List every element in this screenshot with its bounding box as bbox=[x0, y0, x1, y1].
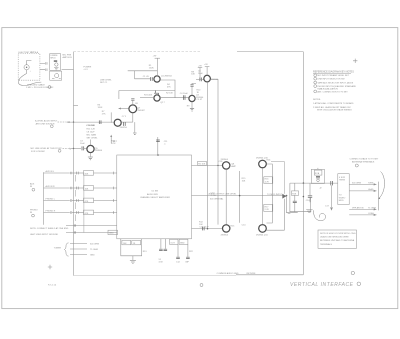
svg-text:AUX: AUX bbox=[30, 182, 35, 185]
wire left bus vertical bbox=[73, 52, 75, 276]
svg-text:+9V: +9V bbox=[198, 65, 202, 67]
label audio output bbox=[209, 193, 283, 201]
transistor Q5 bbox=[87, 145, 103, 152]
capacitor C12 pair bbox=[176, 244, 190, 263]
node PHONO L row bbox=[44, 198, 117, 209]
microphone MK1 dashed enclosure bbox=[18, 51, 40, 80]
wire bias branch bbox=[128, 70, 158, 72]
capacitor C7 bbox=[122, 116, 127, 126]
svg-text:2N3904 Q11: 2N3904 Q11 bbox=[256, 234, 268, 236]
wire Q5 collector up bbox=[89, 140, 91, 146]
svg-text:120K: 120K bbox=[98, 107, 103, 109]
svg-text:R5 10K: R5 10K bbox=[198, 164, 206, 166]
capacitor C13 bbox=[200, 227, 210, 231]
wire TV lead 1 bbox=[349, 182, 376, 185]
svg-text:TWIN: TWIN bbox=[368, 183, 374, 185]
IC U1 main mixer box bbox=[117, 155, 192, 239]
svg-text:2N3904: 2N3904 bbox=[95, 150, 103, 152]
wire Q6 output right bbox=[121, 121, 133, 123]
svg-text:R2 10K: R2 10K bbox=[166, 93, 174, 95]
node tuner A bbox=[70, 243, 99, 245]
label aux group bbox=[30, 182, 35, 191]
node PHONO R row bbox=[44, 210, 117, 221]
bus right vertical bbox=[302, 52, 304, 275]
capacitor C17 bbox=[325, 185, 333, 210]
svg-text:2N3904: 2N3904 bbox=[221, 234, 229, 236]
svg-text:LEAD: LEAD bbox=[368, 188, 374, 191]
wire Q10 to Q11 bbox=[262, 168, 264, 224]
transistor Q8 bbox=[221, 159, 237, 169]
svg-text:OUT: OUT bbox=[170, 242, 175, 244]
svg-text:LINE INPUT SELECTOR SW: LINE INPUT SELECTOR SW bbox=[317, 79, 344, 81]
svg-text:33P: 33P bbox=[185, 262, 189, 264]
component column right of bus bbox=[306, 183, 313, 212]
connector pins between mic and preamp bbox=[40, 62, 47, 71]
svg-text:TERMINALS: TERMINALS bbox=[320, 243, 333, 246]
svg-text:COMMON AUDIO GND: COMMON AUDIO GND bbox=[217, 272, 239, 275]
svg-text:BETWEEN UNIT AND TV ANTENNA: BETWEEN UNIT AND TV ANTENNA bbox=[320, 239, 355, 242]
wire IC to Q9 bbox=[192, 228, 223, 230]
label phono group bbox=[30, 210, 38, 218]
svg-text:LAST USED INPUT GROUND: LAST USED INPUT GROUND bbox=[30, 233, 59, 236]
svg-text:1 ATTACH ALL COMPONENTS TO BOA: 1 ATTACH ALL COMPONENTS TO BOARD bbox=[313, 102, 354, 105]
svg-text:10uF: 10uF bbox=[80, 143, 85, 145]
svg-text:NOTE IF HUM OCCURS WITH LONG: NOTE IF HUM OCCURS WITH LONG bbox=[320, 233, 356, 235]
node bus junctions bbox=[303, 182, 305, 184]
wire TV lead 2 bbox=[349, 188, 376, 192]
wire Q3 collector up bbox=[191, 86, 193, 95]
svg-text:WITH OSCILLATOR STAGE WIRING: WITH OSCILLATOR STAGE WIRING bbox=[317, 108, 352, 111]
svg-text:4.7K: 4.7K bbox=[265, 181, 270, 183]
svg-text:MOD: MOD bbox=[339, 200, 344, 202]
supply arrow +9V for Q1 bbox=[153, 56, 161, 76]
svg-text:SET C1: SET C1 bbox=[100, 82, 108, 84]
svg-text:MIC INPUT PREAMP LEVEL SET: MIC INPUT PREAMP LEVEL SET bbox=[317, 74, 349, 77]
capacitor C2 bbox=[88, 120, 101, 127]
wire R7 vertical bbox=[110, 112, 112, 122]
title mark circle B bbox=[357, 282, 361, 286]
registration cross bottom-left bbox=[48, 265, 52, 269]
coil L1 bbox=[314, 210, 326, 220]
transistor Q7 bbox=[129, 103, 146, 113]
svg-text:10K: 10K bbox=[191, 74, 195, 76]
wire audio output line bbox=[192, 195, 287, 197]
resistor R1 label bbox=[149, 65, 154, 69]
svg-text:C4 10uF: C4 10uF bbox=[180, 93, 189, 95]
svg-text:47K: 47K bbox=[167, 86, 171, 88]
wire lower link bbox=[290, 183, 311, 212]
wire TV lead 3 bbox=[349, 206, 376, 210]
svg-text:10uF: 10uF bbox=[198, 73, 203, 75]
capacitor C3 bbox=[80, 141, 85, 151]
node junction dots left bus bbox=[73, 121, 74, 122]
svg-text:VERTICAL INTERFACE: VERTICAL INTERFACE bbox=[290, 282, 354, 288]
svg-text:C1 .05: C1 .05 bbox=[143, 76, 150, 78]
svg-text:ANTENNA TERMINALS: ANTENNA TERMINALS bbox=[352, 161, 375, 164]
wire bias line mid bbox=[119, 91, 175, 100]
terminal bar bbox=[377, 182, 379, 211]
svg-text:TO: TO bbox=[339, 195, 342, 197]
wire Q1 collector right then down bbox=[160, 80, 175, 98]
label mic preamp bbox=[63, 55, 73, 59]
supply arrow +9V for Q4 bbox=[204, 64, 209, 75]
wire Q4 emitter down bbox=[207, 82, 209, 229]
svg-text:U1 SM: U1 SM bbox=[152, 191, 159, 193]
wire mic row bbox=[71, 148, 81, 150]
svg-text:10K: 10K bbox=[85, 188, 89, 190]
resistor R7 label bbox=[102, 111, 106, 115]
svg-text:B-LEVEL AUDIO INPUT: B-LEVEL AUDIO INPUT bbox=[35, 120, 58, 123]
svg-text:RIAA EQUALIZATION: RIAA EQUALIZATION bbox=[317, 87, 338, 90]
crystal X1 bbox=[159, 239, 168, 264]
node output corner bbox=[286, 195, 298, 214]
svg-text:AUX IN L: AUX IN L bbox=[46, 170, 56, 173]
svg-text:SHLD: SHLD bbox=[50, 58, 56, 60]
transistor Q11 bbox=[256, 225, 268, 237]
svg-text:R11 2.2K: R11 2.2K bbox=[87, 128, 96, 130]
resistor R6 label bbox=[98, 104, 103, 109]
registration cross top-right bbox=[353, 59, 357, 63]
svg-text:Q1 2N3904: Q1 2N3904 bbox=[161, 75, 172, 77]
svg-text:CHANNEL SELECT AMPLIFIER: CHANNEL SELECT AMPLIFIER bbox=[140, 196, 170, 199]
node tuner C bbox=[70, 255, 95, 257]
transistor Q1 bbox=[154, 75, 173, 82]
svg-text:150K: 150K bbox=[149, 67, 154, 69]
wire Q5 emitter down bbox=[89, 153, 91, 157]
label shielded cable bbox=[26, 83, 54, 89]
svg-text:47K: 47K bbox=[85, 201, 89, 203]
svg-text:GND: GND bbox=[90, 255, 95, 257]
resistor divider R13 R14 bbox=[121, 239, 148, 264]
svg-text:LEADS USE SHIELDED WIRE: LEADS USE SHIELDED WIRE bbox=[320, 236, 349, 239]
sheet mark circle A bbox=[351, 271, 354, 274]
mic capsule element bbox=[24, 60, 32, 73]
ground below Q5 bbox=[88, 157, 93, 160]
svg-text:R3 100K: R3 100K bbox=[144, 95, 153, 97]
wire preamp output to bus bbox=[62, 69, 74, 71]
svg-text:CONNECT LEADS TO TV SET: CONNECT LEADS TO TV SET bbox=[350, 158, 380, 161]
svg-text:TYPE A: TYPE A bbox=[31, 51, 39, 54]
svg-text:AMP: AMP bbox=[231, 165, 236, 168]
wire Q4 collector right then down bbox=[210, 79, 218, 224]
wire IC to Q8 bbox=[192, 164, 223, 166]
wire b-level row bbox=[70, 121, 114, 123]
node GND row bbox=[30, 230, 118, 236]
svg-text:4.7K: 4.7K bbox=[111, 143, 116, 145]
wire RCA feed bbox=[290, 182, 338, 184]
capacitor C1 bbox=[135, 76, 155, 81]
wire Q7 emitter down bbox=[132, 113, 134, 122]
svg-text:2.2K: 2.2K bbox=[265, 209, 270, 211]
node B-level input arrow bbox=[35, 120, 70, 128]
svg-text:10K: 10K bbox=[242, 180, 246, 182]
node AUX L row bbox=[44, 170, 117, 181]
svg-text:TUNER: TUNER bbox=[54, 248, 62, 250]
node TAPE row bbox=[30, 224, 117, 230]
svg-text:RETURN: RETURN bbox=[247, 273, 256, 275]
transistor Q6 bbox=[114, 119, 128, 129]
svg-text:AUDIO MIX: AUDIO MIX bbox=[147, 193, 158, 196]
resistor R8 supply bbox=[191, 65, 202, 79]
wire Q3 emitter down bbox=[191, 102, 193, 109]
svg-text:300 OHM: 300 OHM bbox=[352, 182, 361, 184]
battery module M2 bbox=[50, 71, 62, 80]
input connector J1 dashed bracket bbox=[43, 172, 45, 225]
node mic-level input arrow bbox=[31, 147, 72, 153]
capacitor C15 bbox=[331, 181, 333, 185]
notes block bbox=[313, 99, 354, 111]
svg-text:MIC LINE LEVEL AT THIS POINT: MIC LINE LEVEL AT THIS POINT bbox=[31, 147, 63, 150]
svg-text:FOR LOW MIC: FOR LOW MIC bbox=[31, 151, 46, 153]
wire second vertical in rows bbox=[83, 173, 85, 233]
node tuner B bbox=[70, 249, 98, 251]
transistor Q3 bbox=[189, 95, 204, 102]
svg-text:AMP BOX: AMP BOX bbox=[63, 56, 73, 59]
svg-text:75 OHM: 75 OHM bbox=[368, 208, 376, 210]
wire TV lead 4 bbox=[349, 212, 376, 216]
RCA jack J2 bbox=[311, 168, 324, 190]
wire bottom return bbox=[74, 275, 237, 277]
transistor Q10 bbox=[256, 157, 271, 167]
label bottom return bbox=[200, 272, 256, 287]
svg-text:GND: GND bbox=[180, 242, 185, 244]
resistor R5 bbox=[198, 162, 207, 166]
svg-text:AUX IN R: AUX IN R bbox=[46, 185, 56, 188]
svg-text:2N4250: 2N4250 bbox=[120, 127, 128, 129]
wire Q2 base left bbox=[140, 97, 154, 99]
svg-text:C8 10uF: C8 10uF bbox=[87, 131, 96, 133]
svg-text:+9V: +9V bbox=[204, 64, 208, 66]
label TV terminals bbox=[350, 158, 380, 167]
diode D1 bbox=[267, 194, 287, 230]
svg-text:+9V: +9V bbox=[153, 56, 157, 58]
wire Q8 to Q9 bbox=[225, 170, 227, 225]
node bus tick bbox=[74, 105, 79, 107]
svg-text:GND: GND bbox=[109, 233, 114, 235]
output pin boxes bbox=[170, 239, 194, 253]
resistor R4 label bbox=[167, 84, 171, 88]
svg-text:NOTE: CONNECT SHIELD AT ONE EN: NOTE: CONNECT SHIELD AT ONE END bbox=[30, 227, 69, 230]
svg-text:47K: 47K bbox=[85, 213, 89, 215]
capacitor C11 top pin bbox=[111, 137, 168, 156]
svg-text:VHF ANT IN: VHF ANT IN bbox=[352, 206, 364, 209]
wire Q2 collector right bbox=[160, 97, 189, 99]
wire Q7 collector up bbox=[132, 101, 134, 105]
svg-text:MIC GAIN: MIC GAIN bbox=[87, 133, 97, 136]
note box N1 bbox=[318, 230, 357, 248]
transistor Q4 bbox=[204, 75, 219, 82]
svg-text:NOTES:: NOTES: bbox=[313, 99, 321, 101]
transistor Q9 bbox=[221, 225, 230, 237]
wire cap to Q5 bbox=[84, 148, 87, 150]
volume pot labels bbox=[86, 125, 95, 127]
connector P1 to TV bbox=[338, 174, 349, 205]
resistor R15 chain bbox=[231, 171, 247, 228]
svg-text:600 OHM BAL: 600 OHM BAL bbox=[210, 198, 224, 201]
supply rail top bbox=[74, 51, 201, 53]
svg-text:ANT. CONNECTION TO TV SET: ANT. CONNECTION TO TV SET bbox=[317, 90, 348, 93]
label POWER bbox=[83, 66, 91, 71]
svg-text:TO MOD INPUT: TO MOD INPUT bbox=[267, 194, 283, 196]
svg-text:TAPE AUX SELECTOR INPUT JACKS: TAPE AUX SELECTOR INPUT JACKS bbox=[317, 81, 353, 84]
pot wiper arrow bbox=[110, 135, 117, 144]
resistor R16 bbox=[264, 177, 273, 184]
node AUX R row bbox=[44, 185, 117, 196]
resistor R18 bbox=[292, 183, 299, 211]
svg-text:C9 47: C9 47 bbox=[197, 99, 203, 101]
resistor R17 bbox=[264, 204, 273, 211]
svg-text:TERM: TERM bbox=[339, 179, 345, 181]
svg-text:2N3904: 2N3904 bbox=[221, 159, 229, 161]
svg-text:RCA: RCA bbox=[315, 172, 320, 175]
reference list block bbox=[313, 71, 357, 94]
svg-text:75 OHM: 75 OHM bbox=[90, 249, 98, 251]
wire branch down of volume line bbox=[134, 122, 136, 132]
arc to antenna terminals bbox=[379, 172, 384, 199]
tuner group bracket bbox=[54, 243, 69, 256]
svg-text:P-7-C v4: P-7-C v4 bbox=[48, 284, 57, 286]
svg-text:VIDEO: VIDEO bbox=[339, 197, 346, 199]
svg-text:SET LEVEL: SET LEVEL bbox=[87, 138, 99, 140]
shielded cable loop bbox=[18, 74, 41, 86]
svg-text:300 OHM: 300 OHM bbox=[90, 243, 99, 245]
wire Q7 base left bbox=[119, 108, 129, 110]
mic preamp module M1 bbox=[50, 54, 61, 71]
wire right column bbox=[267, 164, 273, 223]
svg-text:SHIELDED CABLE: SHIELDED CABLE bbox=[27, 83, 45, 86]
labels above Q5 bbox=[87, 128, 99, 139]
svg-text:2N5087: 2N5087 bbox=[137, 110, 145, 112]
svg-text:AUDIO OUTPUT LINE LEVEL: AUDIO OUTPUT LINE LEVEL bbox=[209, 193, 238, 196]
capacitor C4 bbox=[180, 93, 189, 100]
labels on Q4 emitter chain bbox=[197, 90, 217, 226]
svg-text:10K: 10K bbox=[123, 243, 127, 245]
svg-text:COAX: COAX bbox=[368, 212, 375, 215]
capacitor C6 bbox=[196, 71, 204, 82]
svg-text:+9 V: +9 V bbox=[83, 69, 88, 71]
wire feedback to output column bbox=[271, 161, 284, 193]
label line level note bbox=[100, 79, 113, 84]
svg-text:27K: 27K bbox=[102, 114, 106, 116]
transistor Q2 bbox=[154, 95, 166, 104]
svg-text:10K: 10K bbox=[85, 173, 89, 175]
svg-text:1 MIC + PLUG-IN COND MIC: 1 MIC + PLUG-IN COND MIC bbox=[26, 87, 54, 89]
svg-text:VOLUME: VOLUME bbox=[86, 125, 95, 127]
